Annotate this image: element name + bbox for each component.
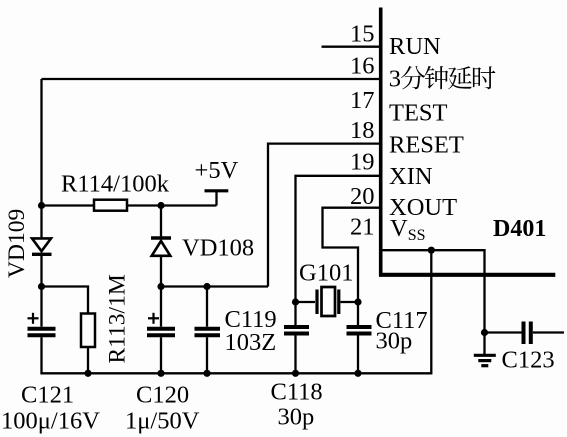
junction Vss branch xyxy=(428,247,435,254)
svg-text:C123: C123 xyxy=(502,347,555,374)
svg-text:G101: G101 xyxy=(299,260,353,287)
junction C120 bottom xyxy=(157,370,164,377)
pin 20 wire to crystal right node xyxy=(323,208,381,302)
pin 19 wire to crystal left node xyxy=(296,176,381,302)
capacitor C121 (+) xyxy=(28,287,56,374)
resistor R113 xyxy=(81,314,95,348)
junction R113 bottom xyxy=(84,370,91,377)
svg-text:R114/100k: R114/100k xyxy=(61,171,170,198)
wire ground rail (bottom) xyxy=(40,372,432,374)
junction crystal left xyxy=(292,298,299,305)
wire node D to RESET drop xyxy=(161,285,268,287)
svg-text:100μ/16V: 100μ/16V xyxy=(1,408,100,435)
junction C119 bottom xyxy=(203,370,210,377)
IC D401 left edge xyxy=(379,8,383,277)
pin 16 label 3分钟延时 xyxy=(389,66,496,93)
wire R114 row xyxy=(42,204,217,206)
capacitor C123 xyxy=(485,322,565,345)
svg-text:20: 20 xyxy=(350,183,375,210)
svg-text:VD108: VD108 xyxy=(182,234,254,261)
svg-text:103Z: 103Z xyxy=(225,329,277,356)
wire R113 to ground rail xyxy=(87,347,89,373)
capacitor C120 (+) xyxy=(147,287,175,374)
capacitor C119 xyxy=(195,287,221,374)
capacitor C118 xyxy=(284,302,309,373)
pin 16 wire to left rail xyxy=(42,78,381,80)
svg-text:16: 16 xyxy=(350,52,375,79)
junction C117 bottom xyxy=(354,370,361,377)
wire VD109 anode xyxy=(40,206,42,239)
capacitor C117 xyxy=(347,302,372,373)
svg-text:R113/1M: R113/1M xyxy=(105,274,131,363)
svg-text:XIN: XIN xyxy=(389,163,433,190)
svg-text:15: 15 xyxy=(350,21,375,48)
junction node B (VD108 top) xyxy=(157,202,164,209)
svg-text:C120: C120 xyxy=(136,382,189,409)
svg-text:VD109: VD109 xyxy=(4,209,30,278)
pin 15 stub wire xyxy=(322,46,381,48)
pin 18 wire xyxy=(268,144,380,287)
svg-text:C118: C118 xyxy=(271,379,323,406)
wire VD108 top xyxy=(160,206,162,238)
svg-text:18: 18 xyxy=(350,117,375,144)
node A top-left rail vertical (pin16 to R114) xyxy=(40,79,42,206)
power +5V terminal xyxy=(205,191,229,206)
svg-text:30p: 30p xyxy=(278,404,315,431)
svg-text:19: 19 xyxy=(350,149,375,176)
svg-text:30p: 30p xyxy=(376,328,413,355)
svg-text:+5V: +5V xyxy=(195,157,239,184)
svg-text:3: 3 xyxy=(389,66,401,93)
wire VD108 bottom to node D xyxy=(160,256,162,287)
IC D401 bottom edge (thick bus) xyxy=(379,273,555,277)
svg-text:17: 17 xyxy=(350,87,375,114)
wire node C to R113 xyxy=(42,287,89,314)
resistor R114 xyxy=(94,200,127,211)
junction node A xyxy=(38,202,45,209)
svg-text:RUN: RUN xyxy=(389,33,441,60)
junction C119 top xyxy=(203,283,210,290)
junction C123/ground node xyxy=(481,329,488,336)
ground symbol xyxy=(474,333,496,366)
crystal G101 xyxy=(296,287,359,316)
svg-text:21: 21 xyxy=(350,214,375,241)
svg-text:1μ/50V: 1μ/50V xyxy=(125,408,200,435)
junction C118 bottom xyxy=(292,370,299,377)
svg-text:RESET: RESET xyxy=(389,132,464,159)
svg-text:TEST: TEST xyxy=(389,100,448,127)
diode VD109 xyxy=(32,238,52,254)
junction node C xyxy=(38,283,45,290)
diode VD108 xyxy=(151,238,171,256)
junction crystal right xyxy=(354,298,361,305)
svg-text:D401: D401 xyxy=(493,216,546,242)
pin 21 Vss wire xyxy=(381,250,485,332)
wire Vss branch down to ground rail xyxy=(430,250,432,373)
wire VD109 cathode to node C xyxy=(40,254,42,287)
svg-text:C121: C121 xyxy=(21,382,74,409)
junction node D xyxy=(157,283,164,290)
